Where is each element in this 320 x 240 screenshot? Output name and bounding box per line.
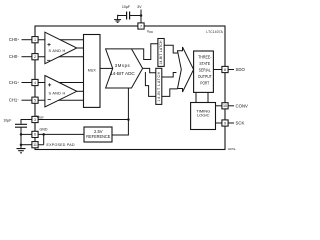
svg-text:OUTPUT: OUTPUT [198,74,212,79]
svg-text:LOGIC: LOGIC [197,113,210,118]
wire MUX to ADC [100,67,113,69]
pin 6 [32,131,38,137]
ground symbol top [114,15,121,23]
svg-text:10µF: 10µF [3,118,12,122]
svg-text:3V: 3V [137,5,142,9]
wire lower bus to arrow [145,72,177,96]
svg-text:14-BIT ADC: 14-BIT ADC [110,71,135,76]
block 2.5V reference [84,127,112,142]
bus arrow to serial port [178,47,194,92]
wire timing to SCK pin [216,122,223,124]
wire CH0+ input [22,39,32,41]
label S AND H A plus [47,43,50,46]
wire pin5 to S/H B [38,99,83,101]
wire CH0- input [22,56,32,58]
wire C1 right to 3V node [130,15,141,17]
block MUX [84,35,101,108]
wire VREF to external cap [21,120,32,124]
pin 11 [32,142,38,148]
wire ADC to lower latch [143,68,156,72]
svg-text:LTC1407A: LTC1407A [206,30,223,34]
pin 7 [138,23,144,29]
pin 8 [222,66,228,72]
node ground-pin11 junction [20,143,23,146]
wire S/H B to MUX [77,90,84,92]
wire serial port to SDO pin [213,69,222,71]
wire VREF bus [38,119,128,121]
node 3V junction [140,14,143,17]
pin 3 [32,116,38,122]
wire CONV out [228,105,234,107]
wire serial port to timing logic right [207,92,209,102]
wire GND to exposed pad [38,134,44,144]
node gnd internal junction [42,133,45,136]
pin 9 [222,120,228,126]
block three-state serial output port [194,51,214,92]
svg-text:REFERENCE: REFERENCE [86,134,110,139]
block latch U3 14-BIT LATCH lower [156,68,162,104]
op-amp A2 S AND H channel 1 [45,76,77,108]
capacitor C2 10uF vref [15,124,27,127]
svg-text:6: 6 [34,133,36,137]
capacitor C1 10uF supply [127,12,130,20]
wire ADC to VREF bus [127,88,129,120]
svg-text:SERIAL: SERIAL [199,67,211,72]
wire serial port to timing logic left [195,92,197,102]
wire SCK out [228,122,234,124]
svg-text:11: 11 [33,143,37,147]
svg-text:4: 4 [34,81,36,85]
wire CH1+ input [22,82,32,84]
wire C2 to ground [20,127,22,148]
svg-text:MUX: MUX [88,69,97,73]
svg-text:SCK: SCK [236,121,245,126]
svg-text:3Msps: 3Msps [115,63,130,68]
svg-text:S AND H: S AND H [49,92,66,96]
svg-text:8: 8 [224,68,226,72]
wire upper latch to arrow [164,45,177,53]
node vref bus junction [127,118,130,121]
wire GND internal [38,133,84,135]
svg-text:9: 9 [224,121,226,125]
wire S/H A to MUX [77,47,84,49]
svg-text:PORT: PORT [200,80,209,85]
svg-text:THREE-: THREE- [198,54,212,59]
wire ground to pin11 [21,144,32,146]
svg-text:5: 5 [34,99,36,103]
svg-text:CONV: CONV [236,104,249,109]
wire pin1 to S/H A [38,39,83,41]
wire 3V supply [140,10,142,24]
svg-text:2: 2 [34,55,36,59]
label S AND H A minus [47,59,50,61]
wire pin7 top [140,22,142,23]
wire pin4 to S/H B [38,82,83,84]
svg-text:1407fa: 1407fa [228,148,236,151]
wire lower latch to arrow [162,73,177,78]
wire CH1- input [22,99,32,101]
svg-text:EXPOSED PAD: EXPOSED PAD [47,143,75,147]
block ADC banner [106,49,143,88]
svg-text:GND: GND [40,127,48,131]
block timing logic [191,103,216,130]
svg-text:10µF: 10µF [122,5,131,9]
svg-text:STATE: STATE [199,61,210,66]
op-amp U1 LTC1407A package outline [35,26,225,150]
wire reference to VREF bus [112,120,128,136]
wire ground to pin6 [21,133,32,135]
svg-text:1: 1 [34,38,36,42]
node ground-pin6 junction [20,133,23,136]
svg-text:14-BIT LATCH: 14-BIT LATCH [159,40,163,65]
svg-text:7: 7 [140,24,142,28]
pin 2 [32,54,38,60]
pin 4 [32,79,38,85]
wire timing to CONV pin [216,105,223,107]
block latch U2 14-BIT LATCH upper [158,39,164,67]
label S AND H B minus [48,99,51,101]
label S AND H B plus [48,83,51,86]
svg-text:S AND H: S AND H [49,49,66,53]
pin 10 [222,103,228,109]
svg-text:SDO: SDO [236,67,246,72]
pin 1 [32,37,38,43]
ground symbol lower left [17,149,26,153]
svg-text:14-BIT LATCH: 14-BIT LATCH [157,71,161,101]
svg-text:10: 10 [223,104,227,108]
pin 5 [32,97,38,103]
wire bus ADC to upper latch (zigzag) [132,44,158,60]
wire pin2 to S/H A [38,56,83,58]
wire C1 left to ground [118,15,127,17]
wire SDO out [228,69,234,71]
op-amp A1 S AND H channel 0 [45,32,77,64]
